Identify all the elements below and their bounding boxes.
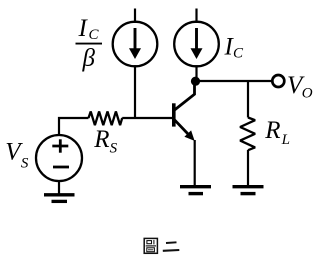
svg-text:C: C [233,45,244,61]
svg-text:L: L [281,132,290,148]
current source U1 (IC/beta) [113,22,158,67]
wire from left current source down to base wire [134,65,136,119]
ground at VS [44,195,75,202]
caption figure label: character TU (figure) [144,238,157,253]
ground at RL [233,187,264,194]
svg-text:R: R [93,126,109,153]
resistor RS [89,112,123,126]
label IC value of U2 [224,34,245,62]
label RL [264,117,290,148]
transistor Q1 (NPN) [172,81,195,141]
svg-text:I: I [78,15,89,42]
label RS [93,126,117,156]
node: collector junction dot [191,77,200,86]
svg-text:β: β [82,45,96,72]
output terminal VO [272,75,284,87]
svg-text:S: S [110,140,118,156]
wire from right current source down to collector node [195,65,197,81]
wire top stub of left current source [134,9,136,24]
wire output node down to resistor RL [247,81,249,118]
svg-text:R: R [264,117,280,144]
wire VS bottom lead to ground [58,181,60,195]
wire resistor RS to transistor base [122,117,172,119]
svg-text:S: S [21,155,29,171]
wire collector node to output terminal [196,80,272,82]
ground at emitter [180,187,211,194]
label VO [287,72,313,102]
label IC/beta value of U1 [76,15,103,72]
wire top stub of right current source [195,9,197,24]
label VS [5,139,29,172]
voltage source VS [36,135,82,181]
caption figure label: character ER (two) [163,242,180,251]
wire resistor RL to ground [247,150,249,186]
current source U2 (IC) [174,22,219,67]
svg-text:O: O [302,86,313,102]
wire VS top lead up to base wire [59,118,89,136]
resistor RL [240,118,255,151]
svg-text:C: C [89,27,100,43]
wire emitter to ground [194,140,196,186]
